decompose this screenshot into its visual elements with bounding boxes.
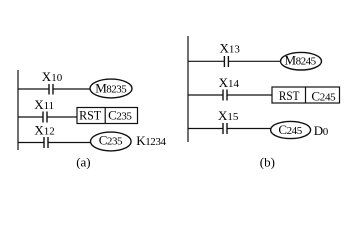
svg-text:X14: X14	[219, 75, 240, 90]
svg-text:(b): (b)	[260, 155, 275, 170]
svg-text:C245: C245	[278, 122, 302, 137]
svg-text:C235: C235	[108, 107, 132, 122]
svg-text:X13: X13	[220, 41, 241, 56]
svg-text:X11: X11	[34, 97, 54, 112]
svg-text:X12: X12	[34, 123, 54, 138]
svg-text:C235: C235	[99, 132, 123, 147]
svg-text:X10: X10	[42, 69, 63, 84]
svg-text:RST: RST	[279, 88, 300, 103]
svg-text:M8235: M8235	[95, 81, 127, 96]
svg-text:C245: C245	[311, 88, 336, 103]
svg-text:X15: X15	[218, 108, 239, 123]
svg-text:(a): (a)	[76, 155, 90, 170]
svg-text:RST: RST	[79, 107, 101, 122]
svg-text:M8245: M8245	[285, 52, 317, 67]
svg-text:K1234: K1234	[136, 133, 166, 148]
svg-text:D0: D0	[314, 123, 329, 138]
